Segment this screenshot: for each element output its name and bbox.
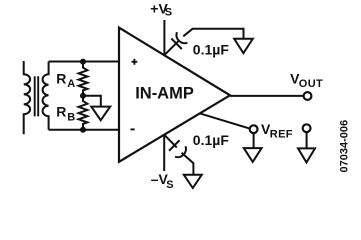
svg-text:07034-006: 07034-006 <box>339 120 351 173</box>
svg-text:R: R <box>56 71 66 87</box>
svg-text:A: A <box>67 78 75 90</box>
svg-text:S: S <box>166 179 173 191</box>
svg-text:REF: REF <box>270 128 293 140</box>
svg-text:IN-AMP: IN-AMP <box>135 85 194 103</box>
svg-text:OUT: OUT <box>299 78 323 90</box>
svg-text:0.1µF: 0.1µF <box>193 132 230 148</box>
svg-text:R: R <box>56 103 66 119</box>
svg-text:0.1µF: 0.1µF <box>193 41 230 57</box>
svg-text:B: B <box>67 112 75 124</box>
svg-text:S: S <box>165 7 172 19</box>
